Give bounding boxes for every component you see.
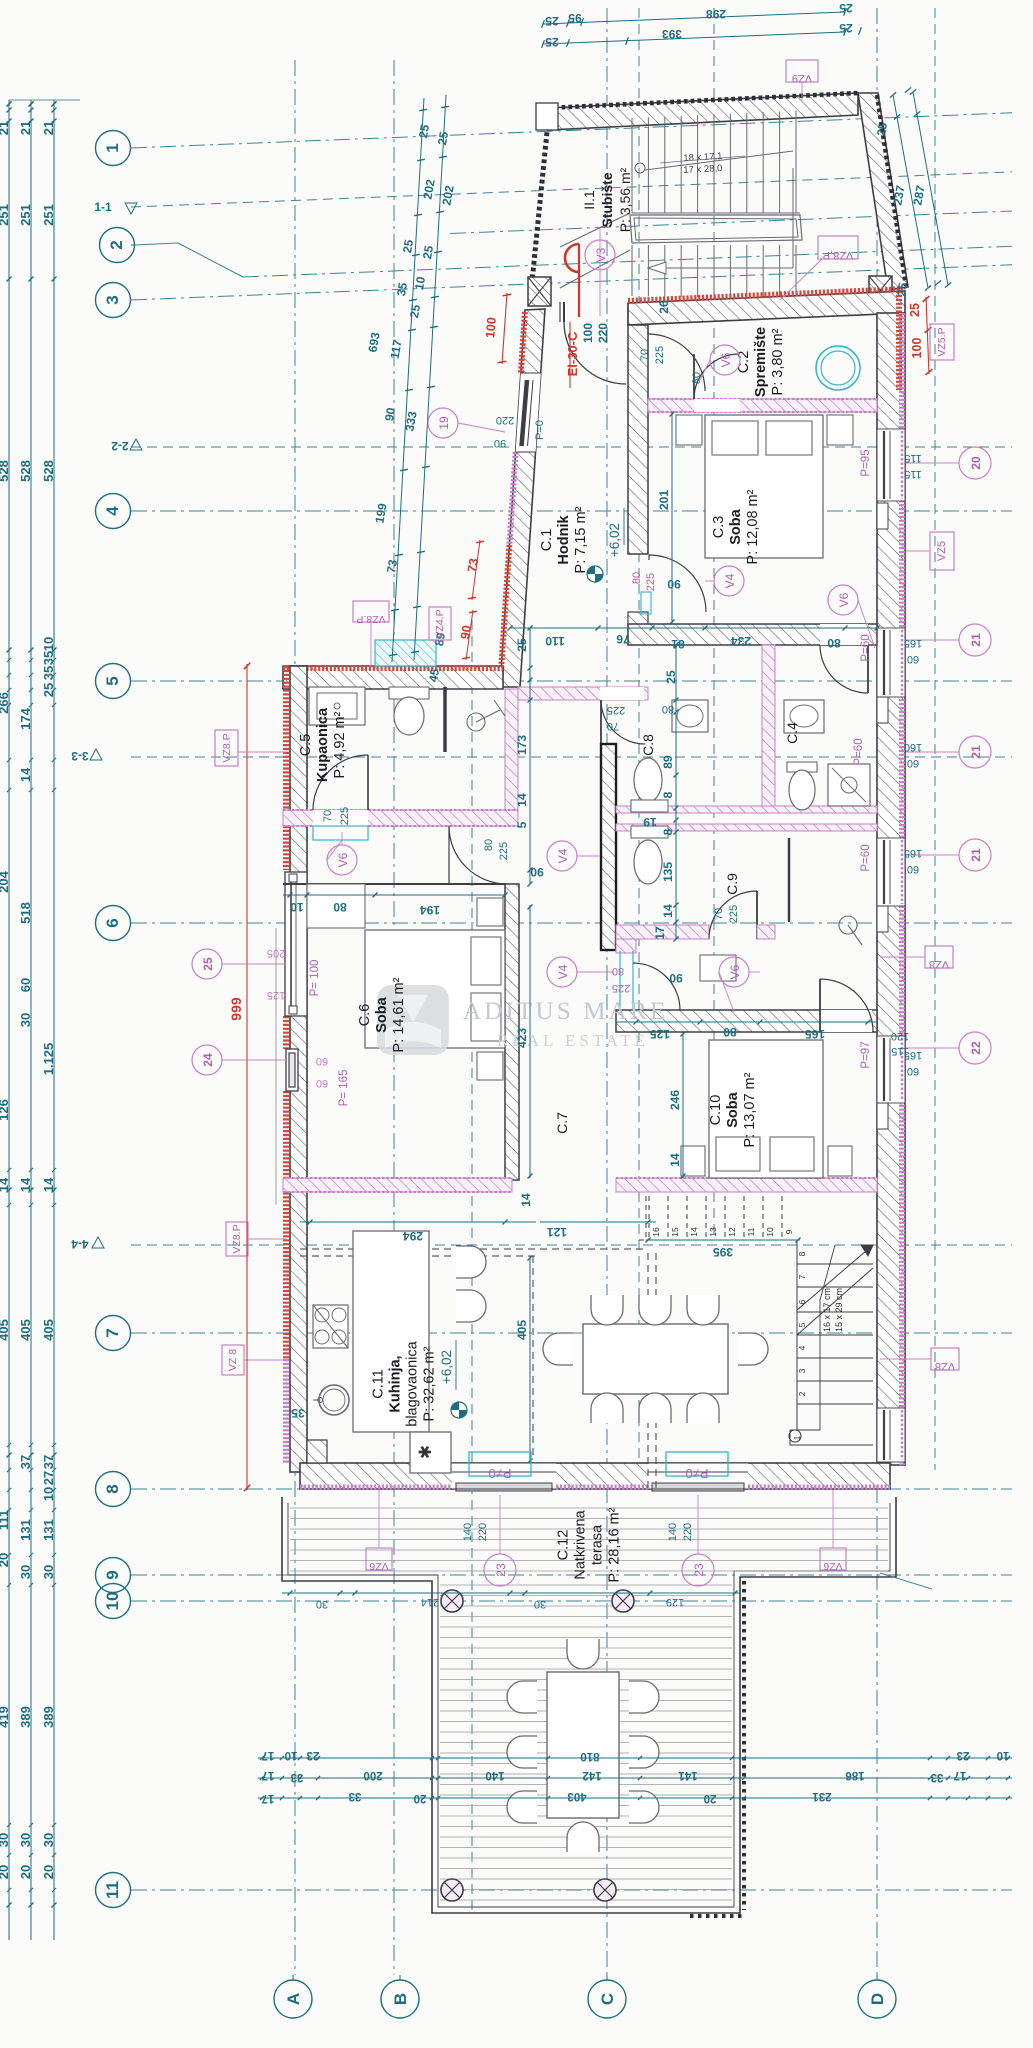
svg-text:P=60: P=60 bbox=[860, 844, 872, 871]
cyan pocket rect near C.3 door bbox=[641, 592, 651, 614]
svg-text:C.11: C.11 bbox=[371, 1369, 387, 1399]
wall C.1|C.2 C.3 vertical bbox=[628, 325, 648, 554]
svg-text:C: C bbox=[598, 1993, 617, 2005]
svg-text:7: 7 bbox=[103, 1328, 122, 1337]
wall segment right of C.9 door bbox=[757, 925, 775, 939]
terrace chairs bbox=[567, 1639, 599, 1669]
kitchen corner step bbox=[307, 1440, 327, 1463]
wall C.5|C.6 horizontal violet bbox=[283, 810, 518, 826]
svg-text:25: 25 bbox=[515, 638, 529, 652]
svg-text:P=0: P=0 bbox=[534, 420, 546, 440]
svg-text:90: 90 bbox=[494, 437, 506, 449]
svg-text:P: 13,07 m²: P: 13,07 m² bbox=[742, 1072, 758, 1147]
stair block corner column left bbox=[528, 277, 551, 306]
stairs lower flight risers bbox=[631, 245, 633, 296]
V reference circles bbox=[599, 228, 601, 316]
terrace outdoor table bbox=[547, 1672, 619, 1818]
svg-text:VZ6: VZ6 bbox=[369, 1560, 388, 1572]
svg-text:12: 12 bbox=[727, 1227, 737, 1237]
svg-text:393: 393 bbox=[662, 27, 682, 41]
red dim 100 at slanted wall window bbox=[502, 293, 507, 364]
svg-text:V6: V6 bbox=[719, 352, 733, 367]
C.6|kitchen wall violet bbox=[283, 1178, 512, 1192]
svg-text:141: 141 bbox=[678, 1769, 698, 1781]
svg-text:45: 45 bbox=[426, 667, 442, 683]
svg-text:165: 165 bbox=[805, 1027, 825, 1041]
svg-text:23: 23 bbox=[307, 1749, 320, 1761]
svg-text:C.5: C.5 bbox=[298, 734, 314, 757]
svg-text:214: 214 bbox=[421, 1596, 439, 1608]
svg-text:518: 518 bbox=[18, 902, 33, 924]
svg-text:25: 25 bbox=[839, 21, 853, 35]
svg-text:VZ8,P: VZ8,P bbox=[823, 249, 854, 261]
svg-text:231: 231 bbox=[812, 1790, 832, 1802]
svg-text:V6: V6 bbox=[837, 592, 851, 607]
bedside tables C.10 bbox=[681, 1146, 705, 1176]
corridor niche wall stub at kitchen bbox=[616, 939, 636, 953]
svg-text:1: 1 bbox=[103, 143, 122, 152]
svg-text:111: 111 bbox=[0, 1510, 11, 1530]
svg-text:90: 90 bbox=[669, 971, 683, 985]
wardrobe C.6 left bbox=[307, 884, 365, 928]
svg-text:251: 251 bbox=[18, 204, 33, 226]
VZ8,P box top right bbox=[818, 236, 858, 259]
svg-text:80: 80 bbox=[631, 572, 643, 584]
svg-text:160: 160 bbox=[904, 741, 922, 753]
svg-text:37: 37 bbox=[18, 1455, 33, 1469]
svg-text:200: 200 bbox=[363, 1769, 382, 1781]
washbasin C.8 bbox=[672, 700, 708, 732]
svg-text:37: 37 bbox=[41, 1455, 56, 1469]
svg-text:204: 204 bbox=[0, 870, 11, 892]
svg-text:60: 60 bbox=[907, 653, 919, 665]
left magenta circles 24 25 bbox=[192, 949, 222, 979]
svg-text:33: 33 bbox=[931, 1771, 944, 1783]
stair block corner column right bbox=[869, 276, 892, 304]
svg-text:VZ8: VZ8 bbox=[935, 1360, 955, 1372]
svg-text:70: 70 bbox=[607, 720, 619, 732]
vertical grid lines A-D and helpers bbox=[294, 60, 296, 1975]
VZ8.P box mid-left + VZ4.P bbox=[353, 601, 389, 622]
svg-text:395: 395 bbox=[713, 1245, 733, 1259]
svg-text:VZ5: VZ5 bbox=[936, 541, 948, 561]
svg-text:30: 30 bbox=[0, 1833, 11, 1847]
axis circles A-D bbox=[274, 1980, 312, 2018]
shower head C.5 bbox=[467, 713, 485, 731]
svg-text:P: 12,08 m²: P: 12,08 m² bbox=[745, 489, 761, 564]
terrace chain 30 214 30 129 bbox=[282, 1592, 740, 1594]
svg-text:115: 115 bbox=[904, 452, 922, 464]
svg-text:225: 225 bbox=[612, 982, 630, 994]
svg-text:20: 20 bbox=[704, 1792, 717, 1804]
red overall dim 999 bbox=[246, 664, 248, 1490]
svg-text:21: 21 bbox=[969, 745, 983, 759]
svg-text:8: 8 bbox=[661, 828, 675, 835]
svg-text:C.9: C.9 bbox=[724, 873, 740, 895]
svg-text:20: 20 bbox=[414, 1792, 427, 1804]
svg-text:23: 23 bbox=[692, 1563, 706, 1577]
svg-text:5: 5 bbox=[797, 1322, 807, 1327]
hodnik slanted west wall (red insulated) bbox=[500, 309, 545, 687]
VZ8 box right mid bbox=[925, 946, 953, 968]
svg-text:3: 3 bbox=[103, 295, 122, 304]
svg-text:Kupaonica: Kupaonica bbox=[315, 707, 331, 782]
svg-text:60: 60 bbox=[907, 1065, 919, 1077]
svg-text:115: 115 bbox=[904, 468, 922, 480]
svg-text:10: 10 bbox=[765, 1227, 775, 1237]
svg-text:17: 17 bbox=[262, 1792, 275, 1804]
svg-text:14: 14 bbox=[41, 1177, 56, 1192]
svg-text:95: 95 bbox=[568, 11, 582, 25]
cyan P=0 boxes bbox=[469, 1452, 531, 1476]
right slanted chains 25 237 287 bbox=[893, 95, 928, 288]
svg-text:2: 2 bbox=[107, 240, 126, 249]
svg-text:186: 186 bbox=[845, 1769, 864, 1781]
door C.1-C.3 arc bbox=[649, 555, 706, 612]
svg-text:125: 125 bbox=[650, 1027, 670, 1041]
chain 423 corridor bbox=[529, 905, 531, 1178]
svg-text:528: 528 bbox=[41, 460, 56, 482]
svg-text:10: 10 bbox=[412, 275, 428, 291]
svg-text:120: 120 bbox=[891, 1030, 909, 1042]
svg-text:266: 266 bbox=[0, 692, 11, 714]
door C.2-C.3 bbox=[694, 399, 740, 412]
section line 1-1 bbox=[131, 172, 1012, 207]
svg-text:25: 25 bbox=[545, 35, 559, 49]
svg-text:73: 73 bbox=[384, 558, 400, 574]
svg-text:80: 80 bbox=[723, 1025, 737, 1039]
svg-text:21: 21 bbox=[0, 121, 11, 135]
svg-text:80: 80 bbox=[333, 900, 347, 914]
svg-text:225: 225 bbox=[645, 573, 657, 591]
bottom chains 810 / 142 etc bbox=[258, 1757, 1012, 1759]
svg-text:A: A bbox=[284, 1993, 303, 2005]
skylight cyan circle C.2 bbox=[816, 346, 860, 390]
entrance door opening + arc bbox=[559, 302, 561, 322]
left exterior wall bbox=[290, 666, 307, 1472]
cyan vent rect above top wall bbox=[375, 640, 436, 666]
svg-text:22: 22 bbox=[969, 1041, 983, 1055]
svg-text:142: 142 bbox=[582, 1769, 601, 1781]
svg-text:20: 20 bbox=[969, 456, 983, 470]
svg-text:1.125: 1.125 bbox=[41, 1043, 56, 1076]
svg-text:225: 225 bbox=[728, 905, 740, 923]
stair block left wall bbox=[532, 112, 549, 282]
svg-text:17: 17 bbox=[262, 1749, 275, 1761]
VZ5 box right bbox=[930, 532, 954, 570]
C.10 top wall thick bbox=[616, 1010, 877, 1032]
svg-text:5: 5 bbox=[103, 676, 122, 685]
svg-text:2-2: 2-2 bbox=[111, 439, 129, 453]
svg-text:P: 14,61 m²: P: 14,61 m² bbox=[391, 977, 407, 1052]
interior stair dashed treads above cut bbox=[648, 1196, 650, 1240]
svg-text:90: 90 bbox=[382, 406, 398, 422]
svg-text:60: 60 bbox=[907, 757, 919, 769]
svg-text:33: 33 bbox=[349, 1790, 362, 1802]
svg-text:100: 100 bbox=[483, 317, 499, 339]
svg-text:25: 25 bbox=[416, 123, 432, 139]
slanted chain along hodnik west wall bbox=[392, 98, 424, 662]
interior stair solid risers below bbox=[797, 1263, 873, 1265]
svg-text:19: 19 bbox=[437, 416, 451, 430]
watermark ADITUS MARE bbox=[377, 985, 449, 1055]
svg-text:V4: V4 bbox=[556, 964, 570, 979]
svg-text:+6,02: +6,02 bbox=[439, 1350, 454, 1384]
top dimension chains bbox=[543, 12, 845, 24]
svg-text:528: 528 bbox=[0, 460, 11, 482]
svg-text:P=60: P=60 bbox=[860, 634, 872, 661]
south exterior wall bbox=[300, 1463, 890, 1489]
svg-text:20: 20 bbox=[41, 1865, 56, 1879]
svg-text:419: 419 bbox=[0, 1706, 11, 1728]
walls C.8|C.9 double violet bbox=[616, 806, 877, 813]
bed C.3 bbox=[705, 415, 823, 558]
svg-text:6: 6 bbox=[103, 918, 122, 927]
svg-text:20: 20 bbox=[0, 1865, 11, 1879]
svg-text:C.12: C.12 bbox=[556, 1530, 572, 1561]
svg-text:90: 90 bbox=[530, 865, 544, 879]
wall C.3 bottom / C.8 C.4 top bbox=[628, 624, 877, 645]
terrace deck planks upper band bbox=[290, 1507, 888, 1509]
svg-text:14: 14 bbox=[18, 767, 33, 782]
svg-text:4: 4 bbox=[797, 1345, 807, 1350]
svg-text:60: 60 bbox=[18, 978, 33, 992]
chain 10 80 194 (C.6 top) bbox=[283, 894, 505, 896]
svg-text:10: 10 bbox=[285, 1749, 298, 1761]
svg-text:P: 4,92 m²: P: 4,92 m² bbox=[332, 711, 348, 778]
svg-text:220: 220 bbox=[477, 1523, 489, 1541]
svg-text:P: 28,16 m²: P: 28,16 m² bbox=[607, 1507, 623, 1582]
wall C.9 bottom violet + door bbox=[616, 925, 709, 939]
svg-text:25: 25 bbox=[545, 14, 559, 28]
svg-text:V4: V4 bbox=[556, 848, 570, 863]
svg-text:80: 80 bbox=[483, 839, 495, 851]
svg-text:389: 389 bbox=[41, 1706, 56, 1728]
cyan niche below C.5 bbox=[313, 826, 368, 840]
svg-text:24: 24 bbox=[201, 1053, 215, 1067]
svg-text:C.10: C.10 bbox=[708, 1095, 724, 1126]
toilet C.4 bbox=[787, 762, 817, 772]
kitchen stove bbox=[313, 1305, 348, 1348]
svg-text:15: 15 bbox=[670, 1227, 680, 1237]
svg-text:blagovaonica: blagovaonica bbox=[405, 1340, 421, 1426]
terrace deck planks lower column bbox=[440, 1584, 732, 1586]
svg-text:20: 20 bbox=[18, 1865, 33, 1879]
red electrical riser EL-30-C bbox=[565, 244, 579, 272]
level symbol C.1 bbox=[587, 566, 603, 582]
svg-text:P: 3,80 m²: P: 3,80 m² bbox=[770, 328, 786, 395]
VZ8 box left bbox=[222, 1345, 244, 1375]
svg-text:VZ6: VZ6 bbox=[823, 1560, 842, 1572]
svg-text:terasa: terasa bbox=[590, 1524, 606, 1565]
svg-text:131: 131 bbox=[18, 1519, 33, 1541]
svg-text:129: 129 bbox=[666, 1596, 684, 1608]
svg-text:89: 89 bbox=[661, 755, 675, 769]
glass partition C.4 lower bbox=[788, 838, 791, 922]
wall C.6|corridor vertical bbox=[505, 884, 519, 1180]
svg-text:P: 32,62 m²: P: 32,62 m² bbox=[422, 1346, 438, 1421]
svg-text:P=60: P=60 bbox=[853, 738, 865, 765]
svg-text:VZ8.P: VZ8.P bbox=[231, 1224, 243, 1253]
svg-text:21: 21 bbox=[969, 633, 983, 647]
section line 3-3 bbox=[131, 756, 1012, 758]
toilets C.8 back-to-back bbox=[634, 758, 662, 802]
svg-text:✱: ✱ bbox=[416, 1445, 435, 1459]
svg-text:B: B bbox=[391, 1993, 410, 2005]
svg-text:V4: V4 bbox=[723, 573, 737, 588]
svg-text:100: 100 bbox=[910, 338, 924, 359]
svg-text:25: 25 bbox=[407, 303, 423, 319]
svg-text:131: 131 bbox=[41, 1519, 56, 1541]
svg-text:C.1: C.1 bbox=[539, 529, 555, 552]
svg-text:298: 298 bbox=[706, 7, 726, 21]
svg-text:30: 30 bbox=[41, 1565, 56, 1579]
svg-text:10: 10 bbox=[290, 900, 304, 914]
svg-text:C.6: C.6 bbox=[357, 1004, 373, 1027]
svg-text:220: 220 bbox=[596, 323, 610, 343]
svg-text:P: 7,15 m²: P: 7,15 m² bbox=[573, 506, 589, 573]
svg-text:234: 234 bbox=[731, 634, 751, 648]
svg-text:P=95: P=95 bbox=[860, 449, 872, 476]
svg-text:8: 8 bbox=[797, 1251, 807, 1256]
svg-text:165: 165 bbox=[904, 847, 922, 859]
svg-text:25: 25 bbox=[908, 303, 922, 317]
svg-text:14: 14 bbox=[689, 1227, 699, 1237]
section line 2-2 bbox=[131, 446, 1012, 448]
left dimension chain lines bbox=[8, 100, 10, 1940]
svg-text:35: 35 bbox=[394, 281, 410, 297]
bedside tables C.6 bbox=[477, 898, 503, 926]
svg-text:9: 9 bbox=[103, 1570, 122, 1579]
svg-text:+6,02: +6,02 bbox=[607, 523, 622, 557]
svg-text:80: 80 bbox=[827, 636, 841, 650]
VZ8.P box left bbox=[215, 730, 238, 766]
svg-text:25: 25 bbox=[839, 1, 853, 15]
red dim 100 25 right side bbox=[926, 297, 929, 374]
interior stair direction arrows bbox=[797, 1245, 873, 1310]
svg-text:405: 405 bbox=[0, 1319, 11, 1341]
svg-text:D: D bbox=[868, 1993, 887, 2005]
svg-text:P≠0: P≠0 bbox=[488, 1466, 511, 1481]
bedside tables C.3 bbox=[676, 415, 702, 445]
svg-text:V6: V6 bbox=[728, 964, 742, 979]
svg-text:3-3: 3-3 bbox=[71, 749, 89, 763]
svg-text:21: 21 bbox=[18, 121, 33, 135]
svg-text:4-4: 4-4 bbox=[71, 1237, 89, 1251]
svg-text:25: 25 bbox=[435, 130, 451, 146]
svg-text:11: 11 bbox=[746, 1227, 756, 1236]
svg-text:VZ 8: VZ 8 bbox=[227, 1349, 239, 1371]
toilet C.5 bbox=[389, 687, 429, 699]
door C.5 in bottom wall bbox=[313, 810, 368, 826]
svg-text:P= 100: P= 100 bbox=[309, 960, 321, 997]
chain 395 stairs bbox=[646, 1239, 800, 1241]
C.10|stairs wall violet bbox=[616, 1178, 877, 1192]
svg-text:110: 110 bbox=[545, 634, 565, 648]
svg-text:25: 25 bbox=[420, 244, 436, 260]
svg-text:35: 35 bbox=[41, 651, 56, 665]
door into C.10 bbox=[820, 1010, 872, 1032]
svg-text:El-30-C: El-30-C bbox=[565, 331, 580, 376]
svg-text:8: 8 bbox=[661, 791, 675, 798]
svg-text:P: 3,56 m²: P: 3,56 m² bbox=[617, 167, 633, 232]
svg-text:220: 220 bbox=[682, 1523, 694, 1541]
svg-text:Natkrivena: Natkrivena bbox=[573, 1509, 589, 1579]
window in slanted wall bbox=[516, 373, 541, 452]
axis 9 jog segment bbox=[880, 1573, 932, 1589]
svg-text:23: 23 bbox=[957, 1749, 970, 1761]
svg-text:9: 9 bbox=[784, 1229, 794, 1234]
svg-text:140: 140 bbox=[667, 1523, 679, 1541]
bed C.10 bbox=[709, 1040, 823, 1178]
svg-text:30: 30 bbox=[316, 1598, 328, 1610]
svg-text:VZ4.P: VZ4.P bbox=[434, 609, 446, 638]
left wall small window (P=165) bbox=[286, 1049, 298, 1091]
svg-text:14: 14 bbox=[18, 1177, 33, 1192]
washbasin C.4 bbox=[784, 700, 824, 733]
right (east) exterior wall bbox=[877, 313, 905, 1465]
svg-text:5: 5 bbox=[515, 821, 529, 828]
pocket door cyan at corridor south end bbox=[619, 951, 621, 1010]
black partition corridor|C.8 C.9 bbox=[601, 744, 616, 950]
svg-text:VZ8.P: VZ8.P bbox=[221, 733, 233, 762]
svg-text:35: 35 bbox=[291, 1406, 305, 1420]
washbasin C.5 bbox=[309, 687, 365, 725]
interior stair dashed void edge bbox=[645, 1196, 647, 1240]
dining chairs bbox=[591, 1295, 623, 1325]
svg-text:80: 80 bbox=[612, 965, 624, 977]
svg-text:1-1: 1-1 bbox=[94, 200, 112, 214]
shower partition C.5 bbox=[443, 687, 447, 752]
svg-text:VZ5.P: VZ5.P bbox=[936, 327, 948, 356]
svg-text:35: 35 bbox=[41, 666, 56, 680]
svg-text:17: 17 bbox=[653, 926, 667, 940]
svg-text:403: 403 bbox=[567, 1790, 586, 1802]
fixture C.9 small bbox=[700, 955, 736, 981]
stair flight arrows diagonal bbox=[560, 213, 630, 247]
svg-text:C.8: C.8 bbox=[640, 734, 656, 756]
east wall inner niches bbox=[877, 503, 888, 529]
stairs walk line with arrow bbox=[635, 163, 645, 173]
svg-text:225: 225 bbox=[339, 807, 351, 825]
svg-text:P≠0: P≠0 bbox=[685, 1466, 708, 1481]
svg-text:405: 405 bbox=[18, 1319, 33, 1341]
left wall window 1 (P=100) bbox=[285, 872, 307, 1016]
main top-left wall (red insulated) bbox=[283, 666, 503, 689]
svg-text:225: 225 bbox=[607, 704, 625, 716]
svg-text:17: 17 bbox=[954, 1769, 967, 1781]
svg-text:V6: V6 bbox=[336, 852, 350, 867]
svg-text:33: 33 bbox=[291, 1771, 304, 1783]
svg-text:2: 2 bbox=[797, 1391, 807, 1396]
svg-text:14: 14 bbox=[668, 1153, 682, 1167]
svg-text:25: 25 bbox=[894, 281, 910, 297]
svg-text:P=97: P=97 bbox=[860, 1041, 872, 1068]
svg-text:30: 30 bbox=[18, 1565, 33, 1579]
section line 4-4 bbox=[131, 1244, 1012, 1246]
svg-text:25: 25 bbox=[201, 957, 215, 971]
svg-text:201: 201 bbox=[657, 490, 671, 510]
svg-text:10: 10 bbox=[997, 1749, 1010, 1761]
svg-text:C.3: C.3 bbox=[711, 516, 727, 539]
kitchen counter bbox=[353, 1231, 429, 1432]
svg-text:10: 10 bbox=[41, 1487, 56, 1501]
kitchen bar chairs bbox=[456, 1246, 486, 1278]
svg-text:Hodnik: Hodnik bbox=[556, 514, 572, 564]
svg-text:60: 60 bbox=[316, 1077, 328, 1089]
svg-text:174: 174 bbox=[18, 707, 33, 729]
chain 201 C.3 bbox=[671, 412, 673, 624]
